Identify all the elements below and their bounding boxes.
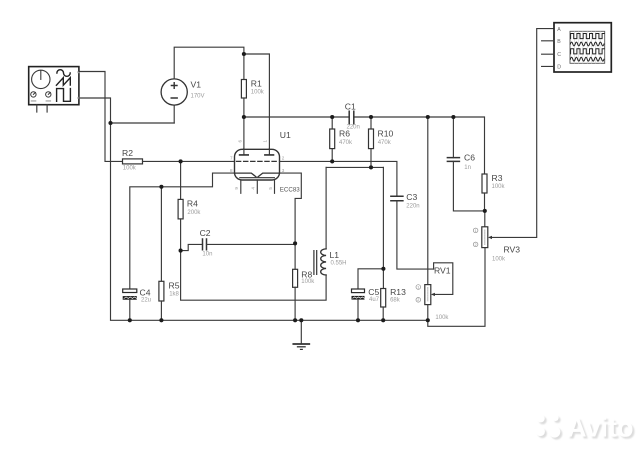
- RV3 circled pins: [473, 228, 478, 233]
- svg-text:10n: 10n: [202, 252, 212, 258]
- tube heater line: [240, 177, 275, 179]
- svg-text:470k: 470k: [339, 140, 353, 146]
- svg-text:R10: R10: [378, 128, 394, 138]
- resistor R3: [482, 174, 487, 193]
- svg-text:1k8: 1k8: [169, 292, 179, 298]
- resistor R5: [159, 281, 164, 301]
- wire L1 top lead: [325, 167, 327, 249]
- svg-text:2: 2: [282, 156, 285, 161]
- wire R8 top lead: [294, 243, 296, 269]
- function generator bottom stubs: [37, 105, 47, 112]
- svg-text:5: 5: [268, 187, 273, 190]
- tube plate bars: [240, 154, 274, 156]
- oscilloscope trace sine 1: [570, 42, 604, 46]
- resistor R2: [123, 159, 143, 164]
- tube bottom pins: [241, 180, 275, 193]
- wire C5 branch: [358, 269, 383, 289]
- wire tank top edge: [326, 166, 383, 168]
- svg-text:Avito: Avito: [567, 412, 634, 442]
- resistor R1: [241, 80, 246, 99]
- wire C5 bottom lead: [357, 300, 359, 321]
- function generator small knob 2: [46, 92, 51, 97]
- RV1 wiper arrowhead: [431, 293, 435, 296]
- function generator sawtooth glyph: [56, 78, 70, 86]
- svg-text:6: 6: [237, 140, 242, 143]
- capacitor C2: [203, 239, 207, 250]
- voltage source V1: [161, 79, 187, 105]
- wire RV1 top feed: [427, 117, 429, 285]
- wire V1 plus to R1 top: [174, 47, 244, 79]
- svg-text:C: C: [557, 52, 561, 58]
- wire R4 bottom to L1 bottom: [181, 219, 327, 300]
- svg-text:100k: 100k: [492, 257, 506, 263]
- tube cathode 2: [258, 173, 279, 177]
- svg-text:470k: 470k: [378, 140, 392, 146]
- svg-text:200k: 200k: [187, 210, 201, 216]
- svg-text:220n: 220n: [406, 204, 419, 210]
- ground: [300, 320, 302, 343]
- oscilloscope trace square 1: [571, 34, 605, 39]
- svg-text:1: 1: [475, 229, 477, 233]
- svg-text:R5: R5: [169, 281, 180, 291]
- wire C3 bottom to RV1 wiper loop: [397, 201, 434, 269]
- wire top rail right of C1: [354, 117, 485, 174]
- wire R8 bottom lead: [294, 287, 296, 320]
- tube grid dashes: [237, 160, 278, 162]
- capacitor C4 polarized top plate: [123, 289, 137, 293]
- RV1 wiper loop: [434, 263, 453, 295]
- function generator sine glyph: [57, 70, 70, 77]
- capacitor C6: [447, 158, 459, 162]
- svg-text:4u7: 4u7: [369, 297, 380, 303]
- wire fn-gen out2 to V1 minus: [79, 98, 174, 123]
- svg-text:C2: C2: [200, 228, 211, 238]
- oscilloscope screen: [570, 31, 605, 63]
- capacitor C5 polarized top plate: [352, 289, 365, 293]
- svg-text:C1: C1: [345, 101, 356, 111]
- svg-text:B: B: [557, 39, 561, 45]
- inductor L1 coil: [321, 249, 326, 275]
- svg-text:V1: V1: [191, 80, 202, 90]
- wire R5 top lead: [160, 187, 162, 281]
- resistor R6: [330, 129, 335, 149]
- resistor R10: [369, 129, 374, 149]
- capacitor C5 polarized bottom plate: [352, 296, 365, 300]
- svg-text:1: 1: [417, 285, 419, 289]
- oscilloscope trace sine 2: [570, 57, 604, 61]
- svg-text:9: 9: [234, 187, 239, 190]
- svg-text:A: A: [557, 27, 561, 33]
- wire RV1 bottom lead: [427, 305, 429, 321]
- svg-text:1n: 1n: [464, 165, 471, 171]
- wire C4 bottom lead: [129, 300, 131, 321]
- svg-text:R3: R3: [492, 173, 503, 183]
- oscilloscope input stubs: [542, 41, 554, 67]
- wire R4 top lead: [180, 161, 182, 199]
- wire top rail left of C1: [244, 116, 349, 118]
- svg-text:D: D: [557, 64, 561, 70]
- wire grid2 to C3 top: [280, 161, 397, 196]
- svg-text:220n: 220n: [347, 125, 360, 131]
- resistor R4: [178, 199, 183, 219]
- svg-text:C3: C3: [406, 192, 417, 202]
- wire R5 bottom lead: [160, 301, 162, 320]
- wire C6 top lead: [452, 117, 454, 158]
- svg-text:C6: C6: [464, 152, 475, 162]
- svg-text:68k: 68k: [390, 298, 401, 304]
- tube cathode 1: [235, 173, 256, 177]
- svg-text:R4: R4: [187, 199, 198, 209]
- svg-text:R2: R2: [122, 148, 133, 158]
- svg-text:0.55H: 0.55H: [331, 260, 347, 266]
- svg-text:8: 8: [230, 168, 233, 173]
- svg-text:R8: R8: [301, 270, 312, 280]
- potentiometer RV3 body: [482, 227, 488, 248]
- function generator square glyph: [57, 89, 71, 102]
- capacitor C3: [391, 196, 403, 200]
- capacitor C4 polarized bottom plate: [123, 296, 137, 300]
- wire cathode1 to R5/C4: [130, 173, 235, 289]
- svg-text:U1: U1: [280, 130, 291, 140]
- svg-text:100k: 100k: [251, 90, 265, 96]
- Avito watermark: [536, 412, 636, 444]
- tube plate leads inside body: [244, 149, 270, 155]
- svg-text:1: 1: [263, 140, 268, 143]
- svg-text:R1: R1: [251, 79, 262, 89]
- function generator small knob 1: [31, 92, 36, 97]
- RV3 wiper arrowhead: [488, 236, 492, 239]
- wire R6 leads: [331, 117, 333, 161]
- svg-text:100k: 100k: [123, 166, 137, 172]
- RV3 wiper wire to scope A: [492, 29, 554, 238]
- wire R2 to grid1: [143, 160, 235, 162]
- function generator XFG1 box: [29, 67, 79, 105]
- wire V1 bottom stem: [173, 105, 175, 123]
- wire R13 bottom lead: [382, 307, 384, 320]
- wire C6 bottom to R3 bottom: [453, 161, 484, 211]
- wire plate2 branch: [244, 54, 270, 155]
- svg-text:L1: L1: [330, 250, 340, 260]
- tube U1 body: [235, 149, 280, 180]
- wire R1 bottom to plate1: [243, 98, 245, 155]
- wire RV3 top lead: [484, 211, 486, 227]
- wire C2 left step: [181, 244, 203, 250]
- svg-text:100k: 100k: [435, 315, 449, 321]
- svg-text:170V: 170V: [191, 94, 205, 100]
- wire C2 right to cathode2 node: [207, 243, 296, 245]
- oscilloscope XSC1 box: [554, 23, 611, 72]
- svg-text:2: 2: [417, 298, 419, 302]
- svg-text:3: 3: [282, 168, 285, 173]
- svg-text:22u: 22u: [141, 298, 151, 304]
- svg-text:RV3: RV3: [504, 245, 521, 255]
- wire R10 leads: [370, 117, 372, 167]
- wire R3 bottom lead: [484, 193, 486, 211]
- function generator knob labels: [31, 100, 37, 101]
- wire ground bus left drop: [111, 123, 428, 320]
- potentiometer RV1 body: [425, 285, 431, 305]
- svg-text:C4: C4: [140, 288, 151, 298]
- wire fn-gen out1 to R2: [79, 72, 123, 162]
- wire bottom jog to RV3: [428, 248, 485, 327]
- svg-text:4: 4: [251, 187, 256, 190]
- svg-text:7: 7: [230, 156, 233, 161]
- function generator output pads: [78, 71, 80, 73]
- RV1 circled pins: [416, 285, 421, 290]
- svg-text:2: 2: [475, 243, 477, 247]
- svg-text:RV1: RV1: [434, 266, 451, 276]
- svg-text:ECC83: ECC83: [280, 187, 301, 194]
- svg-text:100k: 100k: [301, 279, 315, 285]
- svg-text:R13: R13: [390, 287, 406, 297]
- function generator big knob: [32, 70, 50, 88]
- capacitor C1: [349, 111, 354, 123]
- oscilloscope trace square 2: [571, 49, 605, 54]
- wire R13 branch drop: [382, 167, 384, 288]
- svg-text:C5: C5: [368, 287, 379, 297]
- resistor R13: [381, 289, 386, 308]
- inductor L1 core bars: [314, 251, 317, 275]
- resistor R8: [293, 269, 298, 287]
- svg-text:100k: 100k: [492, 184, 506, 190]
- wire cathode2 to R8: [280, 173, 302, 243]
